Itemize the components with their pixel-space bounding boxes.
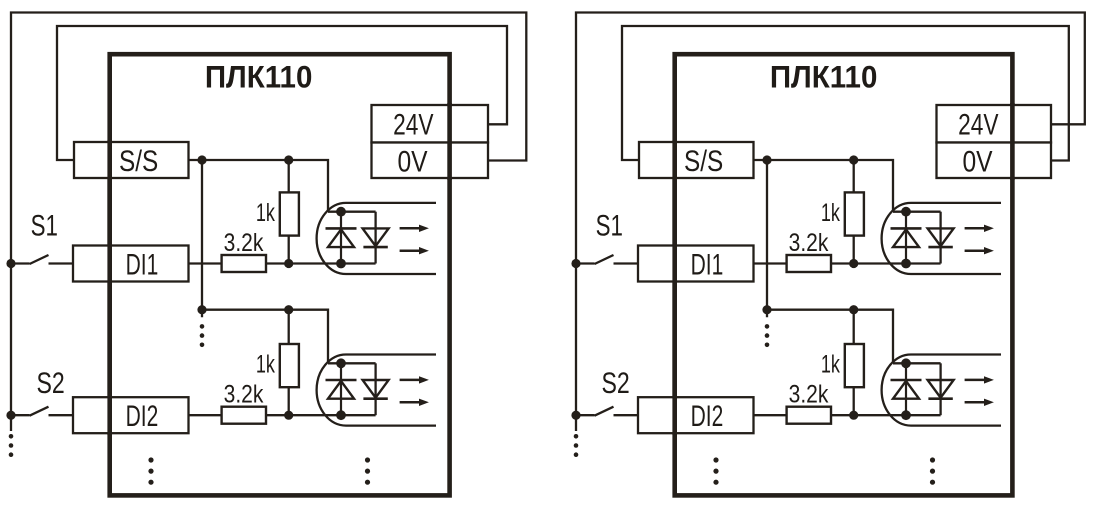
ellipsis more channels below branch (765, 324, 770, 329)
optocoupler U1 right-diode lead wire (374, 212, 376, 264)
label terminal S/S (119, 143, 158, 177)
label R1a value 1k (821, 198, 840, 227)
switch S1 blade (595, 255, 614, 264)
resistor R2a 1k (845, 344, 864, 387)
wire 1k R1a top lead (853, 160, 855, 192)
svg-text:ПЛК110: ПЛК110 (205, 60, 313, 95)
optocoupler U2 LED D2 (cathode down) (363, 380, 389, 399)
label switch S2 (36, 366, 64, 400)
optocoupler U2 light output arrow 2 (400, 399, 429, 406)
optocoupler U2 LED D1 (cathode up) (326, 363, 357, 415)
wire S/S branch to optocoupler U2 (854, 310, 893, 364)
optocoupler U2 right-diode lead wire (939, 363, 941, 415)
junction channel 2 branch node (762, 305, 771, 314)
label terminal 24V (393, 107, 434, 141)
junction switch S1 common node (6, 259, 15, 268)
optocoupler U1 outline (882, 203, 1001, 274)
wire S/S terminal to channel branches (754, 159, 854, 161)
svg-text:1k: 1k (256, 350, 275, 379)
wire 3.2k to optocoupler U1 input (831, 262, 941, 264)
svg-text:DI2: DI2 (691, 401, 724, 433)
label terminal DI1 (126, 249, 159, 281)
optocoupler U1 light output arrow 2 (400, 247, 429, 254)
terminal DI2 box (638, 397, 754, 433)
junction 1k R1a top node (849, 155, 858, 164)
optocoupler U1 anode junction (top) (901, 207, 911, 217)
label R1b value 3.2k (224, 228, 264, 256)
label switch S1 (31, 208, 58, 242)
wire 24V supply loop (S/S terminal to 24V) (57, 26, 507, 160)
junction switch S1 common node (571, 259, 580, 268)
label R2b value 3.2k (789, 380, 829, 408)
controller ПЛК110 case (right) (675, 54, 1013, 495)
label switch S1 (596, 208, 623, 242)
svg-text:DI1: DI1 (691, 249, 724, 281)
ellipsis more input circuits (365, 457, 370, 462)
label terminal 0V (397, 144, 428, 178)
optocoupler U2 anode junction (bottom) (901, 410, 911, 420)
optocoupler U1 anode junction (bottom) (901, 259, 911, 269)
wire 3.2k to optocoupler U2 input (266, 414, 376, 416)
optocoupler U1 anode junction (top) (336, 207, 346, 217)
optocoupler U2 light output arrow 1 (965, 376, 994, 383)
optocoupler U1 LED D2 (cathode down) (928, 228, 954, 247)
terminal DI1 box (638, 246, 754, 282)
svg-text:DI1: DI1 (126, 249, 159, 281)
switch S2 blade (30, 407, 49, 416)
label ПЛК110 (205, 60, 313, 95)
svg-text:24V: 24V (958, 107, 999, 141)
wire common branch down to channel 2 (766, 160, 768, 317)
wire DI1 terminal to 3.2k (189, 262, 222, 264)
resistor R1a 1k (280, 192, 299, 235)
ellipsis more DI terminals (713, 457, 718, 462)
switch S2 left lead wire (576, 414, 595, 416)
svg-text:S/S: S/S (119, 143, 158, 177)
label terminal DI2 (691, 401, 724, 433)
label ПЛК110 (770, 60, 878, 95)
svg-text:S/S: S/S (684, 143, 723, 177)
label R1b value 3.2k (789, 228, 829, 256)
ellipsis more input circuits (930, 457, 935, 462)
wire 0V supply loop (S/S terminal to 0V) (622, 26, 1069, 161)
optocoupler U2 right-diode lead wire (374, 363, 376, 415)
wire 3.2k to optocoupler U1 input (266, 262, 376, 264)
svg-text:0V: 0V (397, 144, 428, 178)
label terminal S/S (684, 143, 723, 177)
terminal 0V box (372, 143, 489, 179)
switch S2 blade (595, 407, 614, 416)
label R2b value 3.2k (224, 380, 264, 408)
terminal DI2 box (73, 397, 189, 433)
junction switch S2 common node (571, 411, 580, 420)
wire S/S terminal to channel branches (189, 159, 289, 161)
ellipsis more switches below S2 (9, 434, 14, 439)
optocoupler U2 top rail wire (328, 362, 376, 364)
wire 0V supply loop (switch common to 0V terminal) (11, 13, 526, 432)
wire 3.2k to optocoupler U2 input (831, 414, 941, 416)
junction channel 2 branch node (197, 305, 206, 314)
resistor R1b 3.2k (222, 255, 266, 272)
junction S/S branch node (762, 155, 771, 164)
terminal S/S box (74, 142, 189, 178)
svg-text:1k: 1k (821, 198, 840, 227)
junction 1k R2a top node (284, 305, 293, 314)
optocoupler U1 outline (317, 203, 436, 274)
optocoupler U2 top rail wire (893, 362, 941, 364)
terminal 24V box (937, 105, 1052, 143)
wire 24V supply loop (switch common to 24V terminal) (576, 13, 1085, 432)
label R2a value 1k (821, 350, 840, 379)
optocoupler U1 right-diode lead wire (939, 212, 941, 264)
wire 1k R2a top lead (853, 310, 855, 344)
junction divider node DI1 (849, 259, 858, 268)
svg-text:DI2: DI2 (126, 401, 159, 433)
label R2a value 1k (256, 350, 275, 379)
wire S/S branch to optocoupler U1 (854, 160, 893, 212)
wire DI1 terminal to 3.2k (754, 262, 787, 264)
ellipsis more switches below S2 (574, 434, 579, 439)
switch S2 right lead wire (614, 414, 639, 416)
junction divider node DI2 (849, 411, 858, 420)
optocoupler U2 outline (882, 355, 1001, 426)
wire DI2 terminal to 3.2k (754, 414, 787, 416)
wire S/S branch to optocoupler U1 (289, 160, 328, 212)
junction 1k R1a top node (284, 155, 293, 164)
switch S2 left lead wire (11, 414, 30, 416)
optocoupler U1 LED D1 (cathode up) (326, 212, 357, 264)
switch S1 blade (30, 255, 49, 264)
switch S1 right lead wire (614, 262, 639, 264)
svg-text:ПЛК110: ПЛК110 (770, 60, 878, 95)
terminal DI1 box (73, 246, 189, 282)
optocoupler U1 LED D2 (cathode down) (363, 228, 389, 247)
label terminal 24V (958, 107, 999, 141)
label terminal DI2 (126, 401, 159, 433)
wire 1k R2a bottom lead (853, 387, 855, 415)
optocoupler U1 anode junction (bottom) (336, 259, 346, 269)
wire common branch down to channel 2 (201, 160, 203, 317)
optocoupler U2 light output arrow 1 (400, 376, 429, 383)
wire 1k R2a top lead (288, 310, 290, 344)
svg-text:1k: 1k (256, 198, 275, 227)
optocoupler U2 anode junction (top) (336, 358, 346, 368)
svg-text:0V: 0V (962, 144, 993, 178)
svg-text:3.2k: 3.2k (789, 228, 829, 256)
resistor R2b 3.2k (222, 407, 266, 424)
label terminal DI1 (691, 249, 724, 281)
optocoupler U1 LED D1 (cathode up) (891, 212, 922, 264)
svg-text:S1: S1 (596, 208, 623, 242)
resistor R1a 1k (845, 192, 864, 235)
label switch S2 (601, 366, 629, 400)
resistor R2a 1k (280, 344, 299, 387)
optocoupler U1 top rail wire (893, 211, 941, 213)
resistor R2b 3.2k (787, 407, 831, 424)
svg-text:S2: S2 (36, 366, 64, 400)
terminal 0V box (937, 143, 1052, 179)
junction divider node DI2 (284, 411, 293, 420)
switch S1 left lead wire (576, 262, 595, 264)
switch S1 right lead wire (49, 262, 74, 264)
optocoupler U2 anode junction (top) (901, 358, 911, 368)
label R1a value 1k (256, 198, 275, 227)
controller case border over terminals (right) (675, 103, 1013, 435)
wire DI2 terminal to 3.2k (189, 414, 222, 416)
ellipsis more DI terminals (148, 457, 153, 462)
wire S/S branch to optocoupler U2 (289, 310, 328, 364)
wire 1k R1a bottom lead (853, 236, 855, 264)
switch S2 right lead wire (49, 414, 74, 416)
svg-text:3.2k: 3.2k (224, 228, 264, 256)
svg-text:S2: S2 (601, 366, 629, 400)
junction S/S branch node (197, 155, 206, 164)
svg-text:3.2k: 3.2k (224, 380, 264, 408)
optocoupler U2 LED D2 (cathode down) (928, 380, 954, 399)
controller case border over terminals (left) (110, 103, 450, 435)
optocoupler U2 outline (317, 355, 436, 426)
controller ПЛК110 case (left) (110, 54, 450, 495)
switch S1 left lead wire (11, 262, 30, 264)
terminal 24V box (372, 105, 489, 143)
wire 1k R1a top lead (288, 160, 290, 192)
svg-text:3.2k: 3.2k (789, 380, 829, 408)
optocoupler U2 LED D1 (cathode up) (891, 363, 922, 415)
junction divider node DI1 (284, 259, 293, 268)
optocoupler U1 light output arrow 1 (400, 225, 429, 232)
ellipsis more channels below branch (200, 324, 205, 329)
optocoupler U1 top rail wire (328, 211, 376, 213)
optocoupler U1 light output arrow 2 (965, 247, 994, 254)
wire channel 2 branch row (767, 309, 854, 311)
resistor R1b 3.2k (787, 255, 831, 272)
terminal S/S box (639, 142, 754, 178)
junction 1k R2a top node (849, 305, 858, 314)
svg-text:1k: 1k (821, 350, 840, 379)
wire channel 2 branch row (202, 309, 289, 311)
svg-text:24V: 24V (393, 107, 434, 141)
wire 1k R1a bottom lead (288, 236, 290, 264)
label terminal 0V (962, 144, 993, 178)
optocoupler U2 light output arrow 2 (965, 399, 994, 406)
svg-text:S1: S1 (31, 208, 58, 242)
junction switch S2 common node (6, 411, 15, 420)
optocoupler U1 light output arrow 1 (965, 225, 994, 232)
wire 1k R2a bottom lead (288, 387, 290, 415)
optocoupler U2 anode junction (bottom) (336, 410, 346, 420)
